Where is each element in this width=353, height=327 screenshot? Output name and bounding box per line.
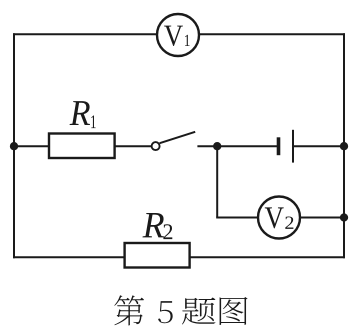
wire: elbow to V2	[216, 217, 258, 219]
resistor R1	[49, 134, 115, 159]
wire: left rail to R1	[14, 145, 49, 147]
battery cell: positive plate (long thin)	[292, 130, 294, 163]
resistor R2	[125, 243, 190, 268]
node: junction dot, right rail / V2 branch	[340, 213, 348, 221]
caption glyph 第	[114, 295, 144, 325]
wire: right rail	[343, 33, 345, 258]
node: junction dot, right rail / battery branch	[340, 142, 348, 150]
node: junction dot, left rail / middle branch	[10, 142, 18, 150]
wire: R2 to right rail (bottom)	[190, 256, 345, 258]
wire: left rail	[13, 33, 15, 258]
wire: V2 to right rail	[300, 217, 344, 219]
wire: top-left segment (left rail to V1)	[13, 33, 157, 35]
wire: vertical drop from tap to V2 level	[216, 146, 218, 217]
switch S (open, lever up-right)	[152, 132, 196, 150]
wire: top-right segment (V1 to right rail)	[199, 33, 345, 35]
voltmeter V1	[157, 14, 199, 56]
wire: R1 to switch	[115, 145, 152, 147]
wire: switch to battery	[197, 145, 278, 147]
label R2	[142, 213, 172, 239]
battery cell: negative plate (short thick)	[277, 137, 281, 155]
caption glyph 题	[182, 298, 216, 325]
wire: battery to right rail	[293, 145, 344, 147]
node: junction dot, V2 tap on middle branch	[213, 142, 221, 150]
label R1	[70, 101, 96, 128]
voltmeter V2	[258, 197, 300, 239]
caption glyph 图	[220, 297, 248, 325]
caption glyph 5	[158, 301, 173, 323]
wire: bottom-left segment (left rail to R2)	[13, 256, 125, 258]
